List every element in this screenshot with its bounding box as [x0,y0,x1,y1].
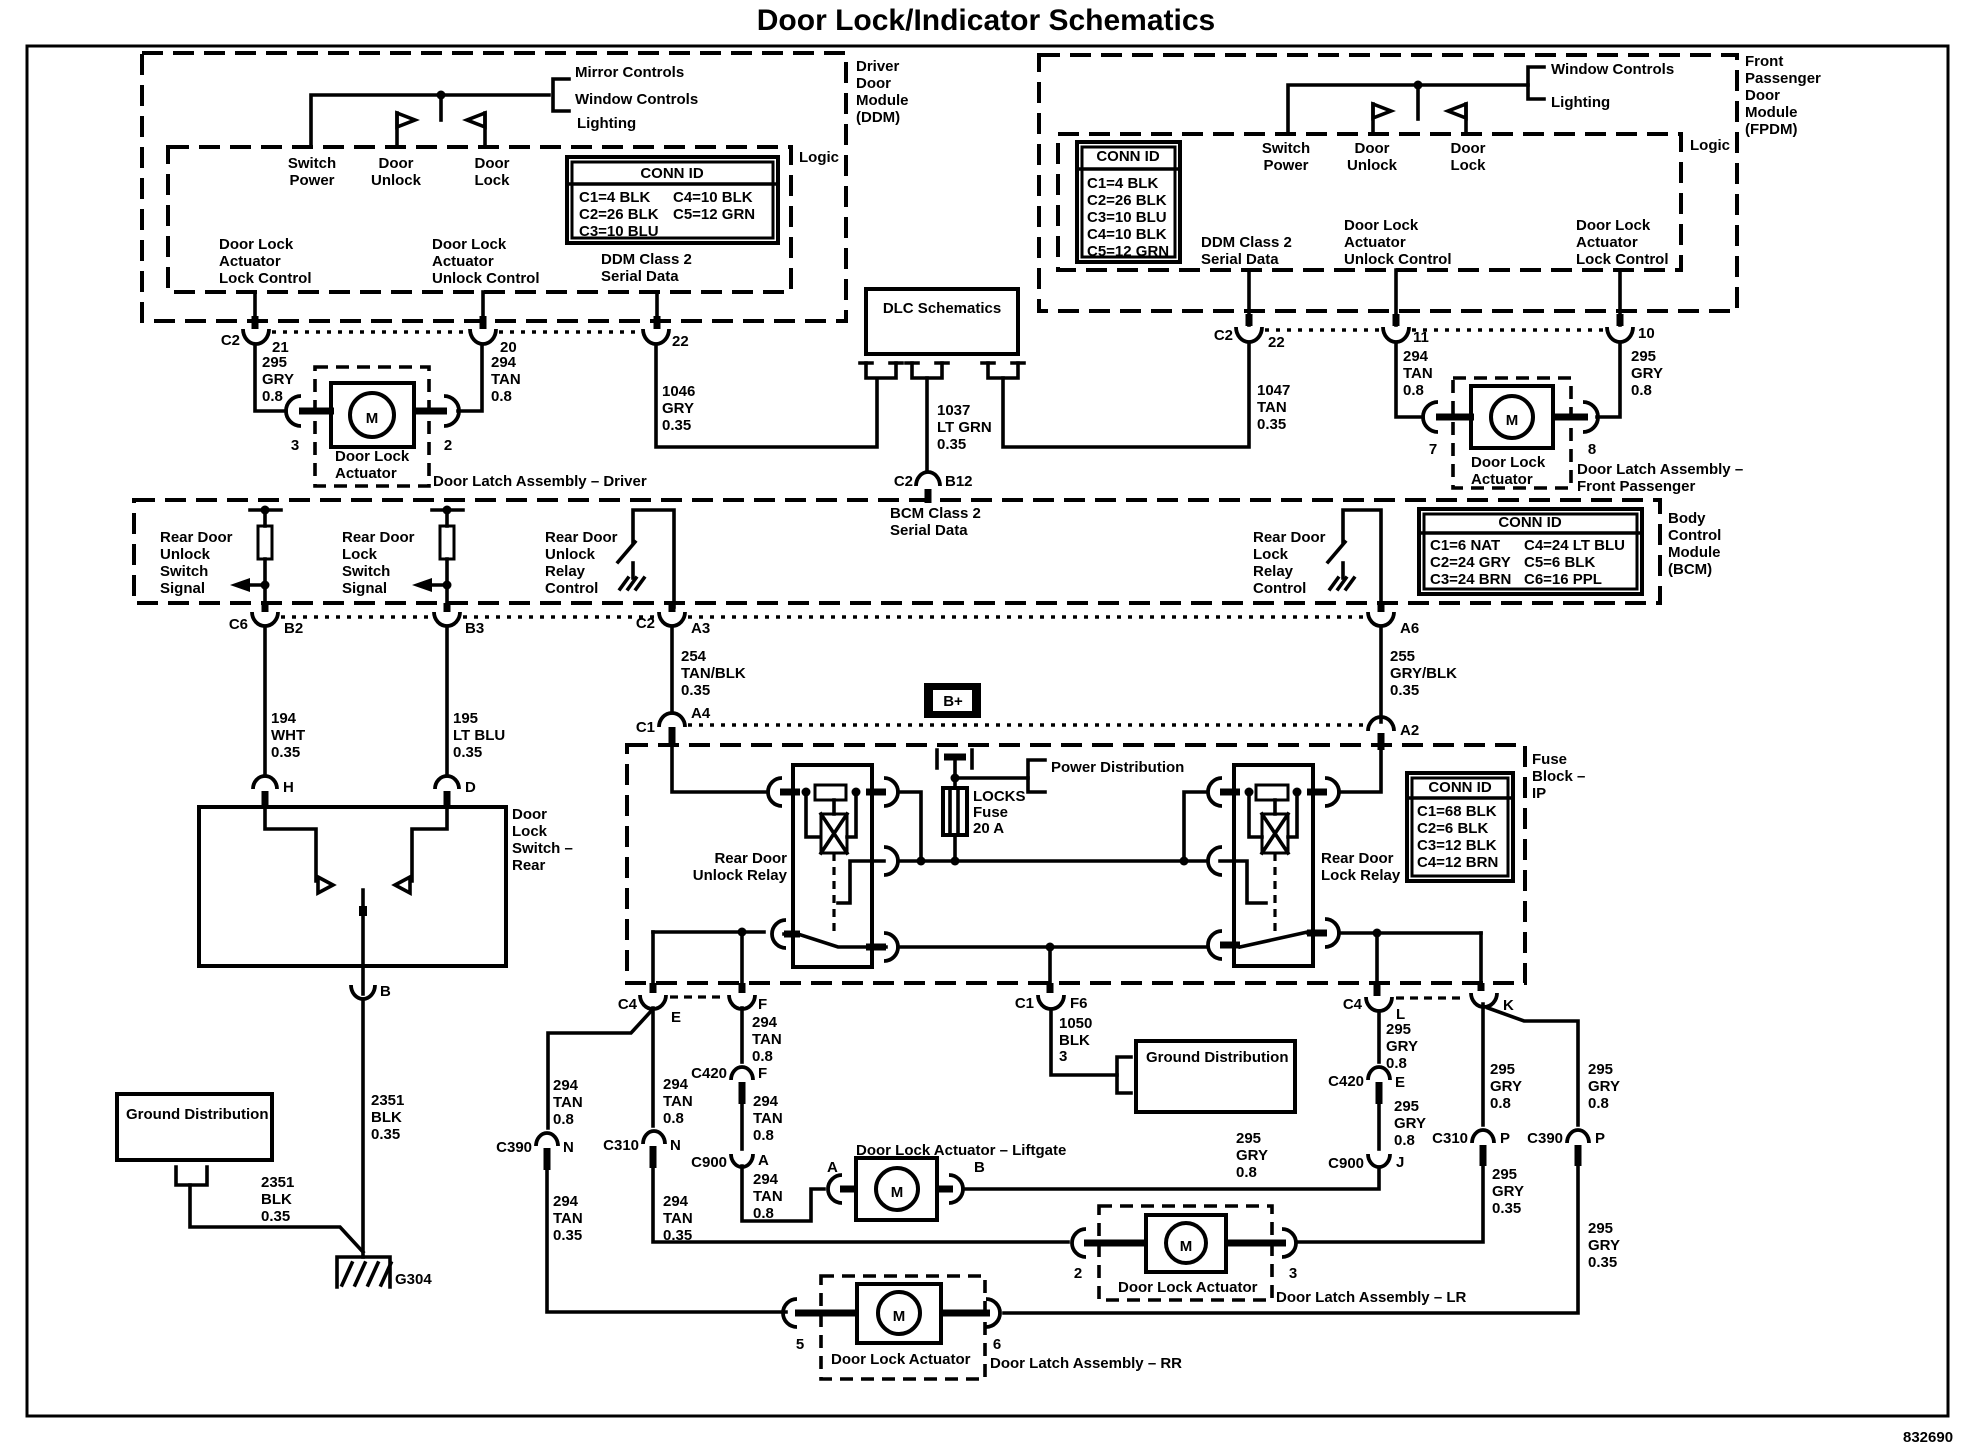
lock relay bottom-right arc [1325,919,1339,947]
svg-text:1047: 1047 [1257,382,1290,399]
svg-text:Front: Front [1745,53,1783,70]
svg-text:295: 295 [1394,1098,1419,1115]
unlock relay bottom-right arc [884,933,898,961]
connector pin 20 [470,329,496,344]
svg-text:195: 195 [453,710,478,727]
svg-text:GRY: GRY [1386,1038,1418,1055]
bracket to ground distribution [1117,1057,1131,1093]
lead into driver actuator [299,408,334,415]
svg-text:A3: A3 [691,620,710,637]
svg-text:M: M [891,1184,904,1201]
stub wires through BCM edge [265,603,447,612]
svg-text:Actuator: Actuator [432,253,494,270]
svg-text:C2=26 BLK: C2=26 BLK [1087,192,1167,209]
svg-text:Block –: Block – [1532,768,1585,785]
lock relay internal L wire [1220,861,1266,903]
svg-text:Door: Door [1451,140,1486,157]
wire liftgate B to C900 J [963,1168,1379,1189]
svg-text:BLK: BLK [1059,1032,1090,1049]
LR left arc pin 2 [1072,1229,1086,1257]
wire E down to C310 [651,1008,655,1126]
svg-text:295: 295 [1588,1061,1613,1078]
motor circle M RR [878,1292,920,1334]
wire stub below dot [1416,85,1420,119]
wire B2 to H [263,628,267,776]
wire from ground distribution to G304 [190,1185,363,1252]
svg-text:Door: Door [1745,87,1780,104]
DLC terminal bracket 1 [866,363,896,378]
svg-text:TAN: TAN [663,1093,693,1110]
wire A6 to A2 [1379,628,1383,722]
bracket window controls lighting [1528,67,1544,99]
svg-text:LOCKS: LOCKS [973,788,1026,805]
svg-text:Module: Module [1668,544,1721,561]
svg-text:0.8: 0.8 [752,1048,773,1065]
unlock relay coil X box [821,814,847,853]
connector pin 22 [643,329,669,344]
svg-text:22: 22 [1268,334,1285,351]
svg-text:CONN ID: CONN ID [1096,148,1160,165]
svg-text:DDM Class 2: DDM Class 2 [601,251,692,268]
junction dot [1414,81,1423,90]
svg-text:Mirror Controls: Mirror Controls [575,64,684,81]
unlock relay right-top arc [884,778,898,806]
DLC terminal bracket 3 [988,363,1018,378]
flag door unlock FPDM [1371,104,1375,134]
svg-text:Unlock: Unlock [371,172,422,189]
svg-text:TAN: TAN [553,1210,583,1227]
wire unlock relay bottom-right to lock relay bottom-left [898,945,1206,949]
connector C2 A3 [659,612,685,626]
svg-text:Actuator: Actuator [219,253,281,270]
wire unlock relay bottom-left to C4 E and F [653,930,764,934]
wire B3 to D [445,628,449,776]
wire L down to C420 E [1377,1011,1381,1062]
svg-text:Rear Door: Rear Door [714,850,787,867]
wire E branch diagonal [548,1009,653,1128]
svg-text:B12: B12 [945,473,973,490]
connector C1 F6 [1038,995,1064,1009]
svg-text:295: 295 [262,354,287,371]
svg-text:Lock: Lock [474,172,510,189]
svg-text:C4=10 BLK: C4=10 BLK [673,189,753,206]
resistor lock switch signal [432,508,463,512]
wire 1046 GRY from pin22 to DLC [656,345,877,447]
LOCKS fuse [943,788,967,835]
svg-text:Rear Door: Rear Door [1321,850,1394,867]
svg-text:B: B [380,983,391,1000]
svg-text:3: 3 [291,437,299,454]
rear door lock relay box [1234,765,1313,966]
bus rail to lock relay [898,859,1206,863]
motor box FP actuator [1471,386,1553,448]
svg-text:0.8: 0.8 [1394,1132,1415,1149]
svg-text:0.8: 0.8 [663,1110,684,1127]
RR left arc pin 5 [783,1299,797,1327]
svg-text:CONN ID: CONN ID [1498,514,1562,531]
flag door lock DDM [483,113,487,147]
svg-text:254: 254 [681,648,707,665]
wire unlock control to pin 11 [1394,270,1398,325]
svg-text:0.8: 0.8 [1631,382,1652,399]
module box FPDM [1039,55,1737,311]
svg-text:P: P [1500,1130,1510,1147]
wire serial data to pin 22 [655,292,659,327]
svg-text:0.35: 0.35 [1588,1254,1617,1271]
lock relay coil resistor [1256,785,1288,800]
connector arc pin 8 [1583,402,1598,432]
svg-text:Unlock Relay: Unlock Relay [693,867,788,884]
harness dotted row BCM [281,615,431,618]
svg-text:832690: 832690 [1903,1429,1953,1446]
svg-text:0.35: 0.35 [681,682,710,699]
svg-text:Rear Door: Rear Door [545,529,618,546]
svg-text:294: 294 [553,1077,579,1094]
lock relay bottom-left arc [1208,931,1222,959]
svg-text:C2: C2 [894,473,913,490]
connector A6 [1368,612,1394,626]
svg-text:Rear: Rear [512,857,546,874]
svg-text:0.35: 0.35 [1390,682,1419,699]
svg-text:Lock: Lock [342,546,378,563]
connector arc pin 2 [444,396,459,426]
svg-text:C4=24 LT BLU: C4=24 LT BLU [1524,537,1625,554]
connector K [1471,993,1497,1007]
svg-text:Logic: Logic [799,149,839,166]
connector C4 E [640,995,666,1009]
wire 1037 LT GRN down from DLC [925,378,929,470]
wire C310 P down to LR pin 3 [1298,1164,1483,1242]
RR actuator dashed box [821,1276,985,1379]
svg-text:3: 3 [1059,1048,1067,1065]
svg-text:Switch: Switch [160,563,208,580]
svg-text:2: 2 [1074,1265,1082,1282]
svg-text:C6=16 PPL: C6=16 PPL [1524,571,1602,588]
switch contact H side [265,807,316,881]
svg-text:Front Passenger: Front Passenger [1577,478,1696,495]
fuse block dashed box [627,745,1525,983]
svg-text:TAN: TAN [663,1210,693,1227]
svg-text:B2: B2 [284,620,303,637]
svg-text:22: 22 [672,333,689,350]
svg-text:0.35: 0.35 [1492,1200,1521,1217]
svg-text:C4: C4 [618,996,638,1013]
svg-text:Lock: Lock [512,823,548,840]
motor circle M FP [1491,396,1533,438]
battery feed terminal [937,750,972,768]
svg-text:Door: Door [856,75,891,92]
motor circle M [350,393,394,437]
svg-text:Unlock: Unlock [545,546,596,563]
connector C6 B2 [252,612,278,626]
junction dot and arrow lock signal [443,581,452,590]
svg-text:BLK: BLK [261,1191,292,1208]
svg-text:CONN ID: CONN ID [1428,779,1492,796]
harness dotted line driver row [272,330,467,333]
svg-text:TAN: TAN [553,1094,583,1111]
wire 2351 BLK to G304 [361,999,365,1257]
wire A2 into lock relay top right [1378,733,1385,750]
svg-text:BLK: BLK [371,1109,402,1126]
svg-text:Relay: Relay [545,563,586,580]
svg-text:C1: C1 [1015,995,1034,1012]
svg-text:294: 294 [663,1076,689,1093]
svg-text:GRY: GRY [1588,1237,1620,1254]
switch contact D side [412,807,447,881]
svg-text:2351: 2351 [371,1092,404,1109]
svg-text:Unlock: Unlock [160,546,211,563]
svg-text:0.8: 0.8 [753,1127,774,1144]
svg-text:F: F [758,996,767,1013]
connector C900 A [731,1154,753,1167]
svg-text:Serial Data: Serial Data [890,522,968,539]
svg-text:Actuator: Actuator [1471,471,1533,488]
junction dot [437,91,446,100]
svg-text:Door Lock: Door Lock [335,448,410,465]
svg-text:C1=4 BLK: C1=4 BLK [579,189,650,206]
svg-text:2: 2 [444,437,452,454]
svg-text:C1=4 BLK: C1=4 BLK [1087,175,1158,192]
connector A2 [1368,717,1394,731]
svg-text:Serial Data: Serial Data [601,268,679,285]
svg-text:Door Lock Actuator: Door Lock Actuator [831,1351,971,1368]
svg-text:0.8: 0.8 [1490,1095,1511,1112]
svg-text:7: 7 [1429,441,1437,458]
svg-text:A6: A6 [1400,620,1419,637]
wire A4 into fuse block [669,727,676,747]
svg-text:Door Lock: Door Lock [1471,454,1546,471]
svg-text:Switch: Switch [342,563,390,580]
svg-text:295: 295 [1631,348,1656,365]
svg-text:C1=68 BLK: C1=68 BLK [1417,803,1497,820]
svg-text:C3=12 BLK: C3=12 BLK [1417,837,1497,854]
svg-text:C4=12 BRN: C4=12 BRN [1417,854,1498,871]
CONN ID table FPDM [1077,142,1180,262]
svg-text:Lock Control: Lock Control [219,270,312,287]
svg-text:F: F [758,1065,767,1082]
motor circle M liftgate [876,1168,918,1210]
svg-text:10: 10 [1638,325,1655,342]
svg-text:C2: C2 [1214,327,1233,344]
svg-text:Door Lock/Indicator Schematics: Door Lock/Indicator Schematics [757,4,1215,37]
svg-text:GRY: GRY [1490,1078,1522,1095]
svg-text:Door Lock Actuator: Door Lock Actuator [1118,1279,1258,1296]
wire pin11 to actuator pin7 [1396,343,1423,417]
connector C900 J [1368,1154,1390,1167]
svg-text:GRY: GRY [1236,1147,1268,1164]
svg-text:294: 294 [663,1193,689,1210]
connector C390 N [536,1133,558,1146]
harness dotted row 2 [688,723,1365,726]
svg-text:294: 294 [753,1171,779,1188]
svg-text:TAN: TAN [1403,365,1433,382]
svg-text:295: 295 [1386,1021,1411,1038]
svg-text:Passenger: Passenger [1745,70,1821,87]
svg-text:Lighting: Lighting [1551,94,1610,111]
module box DDM [142,53,846,321]
svg-text:0.35: 0.35 [662,417,691,434]
svg-text:TAN: TAN [1257,399,1287,416]
svg-text:Lock: Lock [1450,157,1486,174]
svg-text:Switch: Switch [1262,140,1310,157]
svg-text:C2: C2 [221,332,240,349]
connector F [729,995,755,1009]
svg-text:K: K [1503,997,1514,1014]
lead out FP actuator [1551,414,1588,421]
svg-text:Control: Control [545,580,598,597]
svg-text:1046: 1046 [662,383,695,400]
svg-text:B3: B3 [465,620,484,637]
wire K diagonal branch to C390 P [1488,1008,1578,1125]
svg-text:LT GRN: LT GRN [937,419,992,436]
svg-text:C900: C900 [691,1154,727,1171]
connector C310 N [643,1131,665,1144]
svg-text:B: B [974,1159,985,1176]
RR right arc pin 6 [939,1310,990,1317]
svg-text:0.8: 0.8 [1588,1095,1609,1112]
svg-text:C3=10 BLU: C3=10 BLU [579,223,659,240]
LR actuator dashed box [1099,1206,1272,1300]
CONN ID table DDM [567,157,778,243]
lock relay coil X box [1262,814,1288,853]
wire lock control to pin 10 [1618,270,1622,325]
junction dot and arrow unlock signal [261,581,270,590]
wire A3 to A4 [670,628,674,713]
svg-text:C310: C310 [603,1137,639,1154]
svg-text:C390: C390 [1527,1130,1563,1147]
svg-text:TAN: TAN [753,1110,783,1127]
wire C420 down to C900 [740,1102,744,1149]
svg-text:Actuator: Actuator [335,465,397,482]
svg-text:GRY: GRY [1394,1115,1426,1132]
connector arc pin 7 [1423,402,1438,432]
unlock relay contact blade [784,934,886,947]
wire unlock relay top right to bus [898,792,921,858]
ground symbol BCM lock [1330,578,1354,589]
svg-text:Power: Power [289,172,334,189]
DLC terminal bracket 2 [912,363,942,378]
CONN ID table BCM [1419,509,1642,594]
ground G304 [337,1257,390,1287]
dashes between C4 and K [1396,996,1464,999]
wire C420 E down to C900 J [1377,1102,1381,1149]
svg-text:C5=12 GRN: C5=12 GRN [673,206,755,223]
svg-text:GRY/BLK: GRY/BLK [1390,665,1457,682]
logic box FPDM [1058,134,1681,270]
svg-text:CONN ID: CONN ID [640,165,704,182]
svg-text:294: 294 [752,1014,778,1031]
lock relay left-top arc [1208,778,1222,806]
connector C1 A4 [659,713,685,727]
svg-text:Control: Control [1668,527,1721,544]
dashes between C4 and F [670,995,726,998]
svg-text:294: 294 [553,1193,579,1210]
motor box LR [1146,1215,1226,1272]
svg-text:Door: Door [1355,140,1390,157]
svg-text:1037: 1037 [937,402,970,419]
ground distribution box left [117,1094,272,1160]
svg-text:C310: C310 [1432,1130,1468,1147]
svg-text:255: 255 [1390,648,1415,665]
connector pin 11 [1383,327,1409,342]
svg-text:A2: A2 [1400,722,1419,739]
flag door unlock DDM [395,113,399,147]
svg-text:0.8: 0.8 [1236,1164,1257,1181]
svg-text:0.35: 0.35 [271,744,300,761]
wire K down to C310 P [1481,1004,1485,1125]
wire C900 A to liftgate actuator [742,1166,824,1221]
wire bus up to lock relay top-left [1184,792,1206,861]
liftgate right arc [935,1186,953,1193]
svg-text:Door Lock: Door Lock [219,236,294,253]
svg-text:C4=10 BLK: C4=10 BLK [1087,226,1167,243]
svg-text:Door: Door [512,806,547,823]
svg-text:20 A: 20 A [973,820,1004,837]
svg-text:Signal: Signal [160,580,205,597]
wire lock relay bottom-right to C4 and K [1339,931,1481,935]
terminal bracket under box [176,1167,207,1185]
rear door unlock relay box [793,765,872,967]
svg-text:Fuse: Fuse [1532,751,1567,768]
svg-text:C6: C6 [229,616,248,633]
connector C390 P [1567,1130,1589,1143]
wire C390 to RR actuator [547,1168,786,1312]
svg-text:C1=6 NAT: C1=6 NAT [1430,537,1500,554]
svg-text:C4: C4 [1343,996,1363,1013]
wire to power distribution bracket [955,776,1028,780]
svg-text:Lock Relay: Lock Relay [1321,867,1401,884]
svg-text:0.8: 0.8 [491,388,512,405]
svg-text:A4: A4 [691,705,711,722]
wire pin8 up to pin 10 [1597,343,1620,417]
svg-text:Door Latch Assembly – RR: Door Latch Assembly – RR [990,1355,1182,1372]
switch common wire [361,890,365,994]
svg-text:Ground Distribution: Ground Distribution [126,1106,268,1123]
DLC Schematics box [866,289,1018,354]
svg-text:(FPDM): (FPDM) [1745,121,1798,138]
lead out driver actuator [412,408,447,415]
svg-text:294: 294 [491,354,517,371]
svg-text:GRY: GRY [1492,1183,1524,1200]
svg-text:C5=6 BLK: C5=6 BLK [1524,554,1595,571]
svg-text:Actuator: Actuator [1576,234,1638,251]
connector C310 P [1472,1130,1494,1143]
svg-text:Door Latch Assembly – LR: Door Latch Assembly – LR [1276,1289,1466,1306]
svg-text:Window Controls: Window Controls [1551,61,1674,78]
svg-text:0.35: 0.35 [937,436,966,453]
lead into FP actuator [1436,414,1474,421]
liftgate left arc [828,1175,842,1203]
svg-text:Control: Control [1253,580,1306,597]
connector arc H [253,776,277,789]
svg-text:Fuse: Fuse [973,804,1008,821]
svg-text:Power: Power [1263,157,1308,174]
flag door lock FPDM [1464,104,1468,134]
svg-text:0.35: 0.35 [371,1126,400,1143]
svg-text:295: 295 [1588,1220,1613,1237]
svg-text:Window Controls: Window Controls [575,91,698,108]
wire unlock control to pin 20 [481,292,485,327]
harness dotted line FPDM row [1265,328,1380,331]
svg-text:0.35: 0.35 [553,1227,582,1244]
svg-text:194: 194 [271,710,297,727]
svg-text:TAN: TAN [753,1188,783,1205]
wire pin21 to actuator pin3 [255,345,286,411]
motor circle M LR [1166,1223,1206,1263]
connector C2 pin 22 FPDM [1236,327,1262,342]
svg-text:C420: C420 [691,1065,727,1082]
connector arc D [435,776,459,789]
